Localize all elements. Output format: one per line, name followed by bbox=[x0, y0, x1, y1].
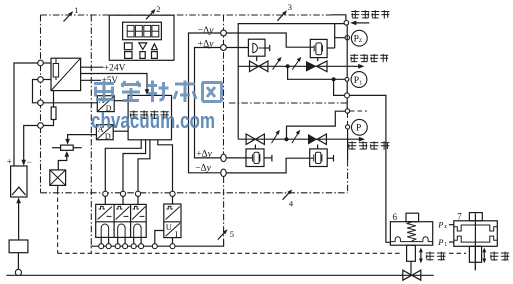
svg-text:+24V: +24V bbox=[104, 63, 126, 73]
nozzle LR capsule bbox=[316, 152, 321, 163]
nozzle UR right tick bbox=[322, 45, 324, 51]
resistor R2 vertical bbox=[51, 107, 56, 120]
middle supply line to processor with down arrow bbox=[81, 74, 147, 91]
pipe main line bottom bbox=[6, 274, 433, 276]
terminal +dy upper bbox=[221, 45, 227, 51]
nozzle UL inner line bbox=[258, 47, 265, 49]
svg-text:−Δy: −Δy bbox=[198, 26, 214, 36]
terminal circle H on bottom boundary bbox=[170, 191, 175, 196]
pressure gauge Pz bbox=[351, 30, 367, 46]
converter cell 2 pulse symbol bbox=[116, 206, 122, 209]
digit 3 bbox=[144, 25, 151, 37]
nozzle UL flapper bar bbox=[252, 43, 254, 53]
SECTION: processor bbox=[50, 95, 175, 196]
actuator 7 stroke arrow bbox=[483, 251, 485, 260]
nozzle unit LL box bbox=[246, 149, 264, 167]
processor output wire 1 bbox=[105, 140, 141, 192]
converter X box bbox=[50, 170, 66, 186]
converter cell 3 coil bbox=[134, 224, 141, 237]
actuator 7 piston lower profile bbox=[454, 236, 498, 242]
bus terminal 1 bbox=[99, 244, 104, 249]
wire node1 stub into power supply bbox=[43, 62, 51, 64]
boundary divider dash-dot x=91.3 between unit 1 and 2 bbox=[90, 15, 92, 253]
nozzle LR left tick bbox=[313, 154, 315, 161]
actuator 7 rod through stem bbox=[474, 246, 476, 270]
boundary dash-dot y=103 between unit 3 and unit 4 bbox=[229, 102, 347, 104]
main line lower with output arrow bbox=[238, 138, 359, 140]
nozzle UR left tick bbox=[313, 45, 315, 51]
SECTION: converters bbox=[91, 196, 224, 248]
amplifier chevron bbox=[12, 187, 26, 195]
watermark char zhen bbox=[94, 81, 114, 103]
digit 4 bbox=[152, 25, 159, 37]
svg-text:6: 6 bbox=[393, 212, 398, 222]
wire terminal F to converter block bbox=[122, 196, 124, 204]
supply wire to positioner 6 bbox=[350, 95, 391, 242]
positioner 6 diaphragm notch left bbox=[395, 237, 400, 242]
bus terminal 6 bbox=[139, 244, 144, 249]
svg-text:4: 4 bbox=[289, 199, 294, 209]
nozzle UR capsule bbox=[316, 43, 322, 55]
wire +dy lower into LL nozzle unit bbox=[226, 157, 252, 159]
feedback sensor box bbox=[9, 240, 28, 253]
arrowhead wiper bbox=[65, 151, 70, 157]
converter block divider 2 bbox=[130, 204, 132, 237]
nozzle LR outer tick bbox=[333, 155, 335, 162]
arrowhead onto potentiometer bbox=[65, 139, 70, 145]
pressure gauge P1 bbox=[351, 72, 367, 88]
boundary dashed bottom line of region 5 bbox=[58, 252, 403, 254]
svg-text:−Δy: −Δy bbox=[195, 164, 211, 174]
svg-text:5: 5 bbox=[230, 229, 234, 239]
arrowhead into processor bbox=[145, 89, 150, 95]
adjust arrow label 2 bbox=[146, 10, 154, 19]
converter cell 2 diagonal bbox=[116, 207, 130, 220]
converter legs cell 2 bbox=[118, 237, 125, 243]
bus terminal 7 bbox=[152, 244, 157, 249]
adjust arrow b bbox=[292, 59, 300, 70]
SECTION: pneumatic lower bbox=[226, 95, 390, 242]
label shu-chu-ya-li output pressure upper bbox=[350, 54, 388, 62]
terminal circle G on bottom boundary bbox=[135, 191, 140, 196]
connector UL box to valve bbox=[256, 56, 258, 61]
arrowhead supply pointing left bbox=[350, 21, 356, 26]
connector valve V3 to LL box bbox=[254, 145, 256, 149]
U/I output leg bbox=[172, 238, 174, 244]
svg-text:1: 1 bbox=[444, 242, 447, 248]
arrowhead output right bbox=[358, 64, 364, 69]
terminal circle F on bottom boundary bbox=[120, 191, 125, 196]
terminal A bbox=[345, 93, 350, 98]
converter legs cell 3 bbox=[134, 237, 141, 243]
adjust arrow label 3 bbox=[277, 12, 285, 21]
nozzle LL outer tick bbox=[271, 155, 273, 162]
converter block divider 1 bbox=[113, 204, 115, 237]
junction routing down to P1 bbox=[288, 66, 345, 79]
converter block triple box bbox=[96, 204, 147, 237]
converter X output stub down bbox=[57, 185, 59, 190]
power supply U1 box bbox=[51, 58, 81, 90]
watermark char wang bbox=[202, 83, 222, 102]
wire terminal H to U/I converter bbox=[172, 196, 174, 204]
feedback wire with up arrow into amplifier bbox=[18, 203, 20, 240]
actuator 7 stem bbox=[469, 246, 481, 262]
svg-text:P: P bbox=[437, 220, 443, 230]
button triangle down bbox=[139, 43, 147, 50]
U/I upper diagonal bbox=[166, 207, 180, 220]
arrowhead minus input down bbox=[21, 160, 26, 166]
power supply internal resistor lead top bbox=[55, 58, 57, 63]
terminal B bbox=[345, 78, 349, 82]
display window bbox=[123, 22, 162, 40]
actuator 7 body bbox=[454, 221, 498, 247]
boundary divider dash-dot x=223.5 between electronics and pneumatics bbox=[223, 15, 225, 154]
actuator 7 cap bbox=[469, 213, 482, 221]
nozzle LL right stub bbox=[264, 157, 271, 159]
supply terminal circle bbox=[344, 21, 349, 26]
converter cell 1 dash bbox=[107, 215, 112, 217]
converter cell 1 diagonal bbox=[98, 207, 112, 220]
wire -dy lower into LR nozzle unit bbox=[226, 158, 314, 173]
adjust arrow label 1 bbox=[64, 13, 72, 22]
terminal at Pz tap bbox=[345, 36, 349, 40]
converter cell 1 coil bbox=[101, 224, 108, 237]
feedback tap lead bbox=[17, 253, 19, 270]
A/D converter 1 box bbox=[97, 96, 114, 112]
wire +dy lower to terminal bbox=[199, 157, 221, 159]
watermark char kong bbox=[121, 81, 141, 102]
valve V3 bowtie open bbox=[246, 134, 255, 145]
supply stub below inlet terminal bbox=[346, 25, 348, 113]
svg-text:+Δy: +Δy bbox=[198, 39, 214, 49]
microprocessor U2 box bbox=[128, 95, 171, 139]
converter legs cell 1 bbox=[101, 237, 108, 243]
terminal circle E on bottom boundary bbox=[103, 191, 108, 196]
wire node4 left down to amplifier minus input bbox=[24, 126, 38, 161]
SECTION: boundaries bbox=[41, 15, 467, 253]
nozzle LL left tick bbox=[251, 154, 253, 161]
svg-text:chvacuum.com: chvacuum.com bbox=[91, 108, 215, 133]
junction dot at P1 branch bbox=[332, 77, 336, 81]
U/I converter box bbox=[164, 204, 181, 238]
bus terminal 5 bbox=[131, 244, 136, 249]
potentiometer left lead bbox=[52, 147, 61, 149]
D/A wire to potentiometer with down arrow bbox=[68, 135, 97, 140]
nozzle unit UL box bbox=[248, 39, 265, 56]
watermark char shu bbox=[174, 81, 196, 103]
node C terminal circle on boundary bbox=[38, 100, 44, 106]
nozzle LL right tick bbox=[259, 154, 261, 161]
potentiometer right lead bbox=[73, 147, 82, 149]
positioner 6 stem bbox=[407, 245, 416, 261]
valve V2 bowtie left filled bbox=[306, 61, 317, 72]
boundary left dash-dot line x=40.5 bbox=[40, 15, 42, 193]
power supply internal resistor bbox=[53, 64, 58, 78]
+24V output line bbox=[81, 66, 104, 68]
actuator 7 rod bbox=[474, 214, 476, 271]
potentiometer RP body bbox=[61, 145, 74, 150]
svg-text:z: z bbox=[444, 223, 447, 230]
digit 1 bbox=[127, 25, 134, 37]
positioner 6 diaphragm notch right bbox=[423, 237, 428, 242]
branch to Pz gauge bbox=[335, 24, 346, 48]
boundary bottom dash-dot line y=192.8 bbox=[41, 192, 348, 194]
U/I lower diagonal bbox=[166, 223, 180, 236]
svg-text:I: I bbox=[175, 229, 178, 239]
A/D converter 1 output wire bbox=[114, 100, 128, 102]
button square bbox=[124, 43, 132, 50]
branch down to terminal A bbox=[334, 79, 345, 95]
processor output wire 2 bbox=[123, 140, 146, 192]
digit 2 bbox=[135, 25, 142, 37]
A/D converter 1 diagonal bbox=[98, 96, 114, 111]
arrowhead output lower right bbox=[359, 137, 365, 142]
SECTION: dy wiring bbox=[189, 30, 227, 176]
svg-text:−: − bbox=[27, 157, 32, 167]
supply header top edge bbox=[238, 24, 344, 140]
potentiometer wiper arrow up bbox=[58, 156, 67, 170]
label gong-qi-ya-li supply pressure bbox=[351, 10, 389, 18]
positioner 6 body bbox=[390, 222, 432, 246]
button triangle up bbox=[152, 44, 158, 50]
svg-text:D: D bbox=[105, 132, 111, 141]
wire node1 left branch to amplifier plus input bbox=[14, 63, 38, 166]
U/I upper pulse symbol bbox=[166, 206, 172, 209]
valve V1 bowtie open bbox=[250, 61, 259, 72]
bus wire bottom with terminals bbox=[91, 240, 224, 246]
wire terminal G to converter block bbox=[137, 196, 139, 204]
junction dot lower bbox=[285, 137, 289, 141]
wire node2 to node3 bypass loop bbox=[33, 80, 38, 103]
dashed stub right of terminal C bbox=[350, 110, 367, 112]
svg-text:7: 7 bbox=[457, 211, 462, 221]
converter cell 3 pulse symbol bbox=[133, 206, 139, 209]
terminal C bbox=[345, 109, 349, 113]
bus terminal 8 bbox=[170, 244, 175, 249]
boundary dashed bottom line right stub bbox=[449, 252, 466, 254]
adjust arrow label 4 bbox=[283, 191, 291, 200]
nozzle LL capsule bbox=[254, 152, 259, 163]
positioner 6 cap bbox=[406, 213, 419, 222]
adjust arrow label 5 bbox=[218, 231, 226, 240]
svg-text:+: + bbox=[7, 157, 12, 167]
nozzle unit UR box bbox=[310, 39, 327, 57]
amplifier A1 box bbox=[11, 166, 27, 197]
adjust arrow c bbox=[272, 132, 279, 144]
gauge column vertical segment 2 bbox=[347, 113, 349, 124]
nozzle LR right stub bbox=[327, 157, 333, 159]
U/I converter divider bbox=[164, 221, 181, 223]
processor output wire 3 bbox=[138, 140, 150, 192]
connector valve V4 to LR box bbox=[317, 145, 319, 149]
main line upper with output arrow bbox=[238, 65, 358, 67]
U/I input wire from ground bus bbox=[155, 231, 164, 244]
junction routing up to terminal C bbox=[287, 111, 346, 139]
wire node4 right to resistor R2 bbox=[43, 120, 53, 126]
pressure gauge P bbox=[352, 119, 368, 135]
wire node3 to A/D converter 1 bbox=[43, 102, 97, 104]
key 3 bbox=[152, 52, 158, 59]
terminal -dy upper bbox=[221, 30, 227, 36]
terminal -dy lower bbox=[221, 169, 226, 176]
wire +dy upper run bbox=[195, 48, 221, 158]
SECTION: actuators bbox=[390, 213, 497, 281]
wire -dy into right nozzle unit bbox=[226, 33, 314, 47]
pipe tap circle bbox=[15, 269, 21, 275]
label wei-chu-li-ji microprocessor bbox=[130, 111, 169, 120]
SECTION: left column bbox=[6, 58, 433, 275]
+5V output line bbox=[81, 79, 101, 81]
svg-text:2: 2 bbox=[156, 4, 160, 14]
boundary solid link down to supply terminal bbox=[331, 15, 346, 20]
label xing-cheng stroke at actuator 7 bbox=[490, 252, 509, 261]
SECTION: gauges bbox=[345, 30, 368, 135]
svg-text:U: U bbox=[166, 222, 172, 232]
power supply diagonal bbox=[52, 59, 80, 90]
wire -dy upper run bbox=[189, 33, 221, 173]
nozzle UL flapper arc bbox=[253, 43, 258, 52]
boundary dash-dot right edge of unit 4 x=347.6 bbox=[347, 160, 349, 193]
svg-text:1: 1 bbox=[74, 5, 78, 15]
wire terminal E to converter block bbox=[104, 196, 106, 204]
bus terminal 4 bbox=[123, 244, 128, 249]
svg-text:+Δy: +Δy bbox=[196, 149, 212, 159]
nozzle LR right tick bbox=[321, 154, 323, 161]
A/D converter 2 box bbox=[96, 125, 113, 140]
positioner 6 diaphragm line bbox=[390, 241, 432, 243]
boundary top dash-dot line (encloses units 1,2,3) bbox=[41, 14, 332, 16]
label shu-chu-ya-li output pressure lower bbox=[348, 141, 390, 149]
valve V4 bowtie left filled bbox=[308, 134, 317, 145]
converter X diagonals bbox=[50, 170, 66, 186]
nozzle UL tick bbox=[269, 45, 271, 51]
gauge column vertical segment 3 bbox=[347, 129, 349, 160]
converter block horizontal divider bbox=[96, 221, 147, 223]
actuator 7 P1 port lead bbox=[449, 241, 454, 243]
junction dot upper bbox=[286, 64, 290, 68]
power supply internal resistor lead bottom bbox=[55, 77, 57, 80]
supply inlet line bbox=[356, 22, 370, 24]
svg-text:3: 3 bbox=[288, 2, 292, 12]
node D terminal circle on boundary bbox=[38, 123, 44, 129]
node B terminal circle on boundary bbox=[38, 77, 44, 83]
wire +dy into left nozzle unit bbox=[226, 47, 248, 49]
positioner 6 spring bbox=[407, 222, 416, 241]
svg-text:P: P bbox=[437, 237, 443, 247]
watermark char ji bbox=[148, 81, 169, 103]
nozzle unit LR box bbox=[310, 149, 328, 167]
processor output wire 4 bbox=[158, 140, 173, 192]
boundary dash-dot wire below terminal with adjust arrow 5 bbox=[223, 177, 225, 241]
nozzle UL right stub bbox=[265, 47, 269, 49]
A/D converter 2 output wire bbox=[113, 130, 128, 132]
boundary dashed left edge of region 5 x=57.6 bbox=[57, 190, 59, 253]
svg-text:P: P bbox=[356, 124, 361, 134]
converter cell 1 pulse symbol bbox=[99, 206, 105, 209]
resistor R2 top lead bbox=[53, 91, 55, 107]
svg-text:Pz: Pz bbox=[354, 35, 362, 45]
key 1 bbox=[125, 52, 132, 59]
terminal +dy lower bbox=[221, 154, 226, 161]
wire node2 stub into power supply bbox=[43, 79, 51, 81]
connector valve V2 to UR box bbox=[317, 58, 319, 62]
terminal D bbox=[346, 125, 350, 129]
bus terminal 2 bbox=[106, 244, 111, 249]
nozzle UR right stub bbox=[327, 47, 335, 49]
SECTION: pneumatic upper bbox=[226, 15, 369, 139]
converter cell 2 dash bbox=[124, 215, 129, 217]
control valve stem bbox=[410, 261, 412, 275]
bus terminal 3 bbox=[115, 244, 120, 249]
label xing-cheng stroke at positioner 6 bbox=[426, 252, 446, 261]
converter cell 2 coil bbox=[118, 224, 125, 237]
actuator 7 Pz port lead bbox=[449, 224, 454, 226]
SECTION: display unit 2 bbox=[109, 15, 174, 60]
converter cell 3 dash bbox=[140, 215, 145, 217]
adjust arrow a bbox=[273, 59, 281, 70]
adjust arrow d bbox=[292, 132, 299, 144]
display unit 2 outer box bbox=[109, 15, 174, 60]
wire -dy lower to terminal bbox=[194, 172, 221, 174]
converter cell 3 diagonal bbox=[132, 207, 145, 220]
control valve bowtie bbox=[403, 270, 412, 280]
arrowhead feedback up bbox=[16, 197, 21, 203]
positioner 6 stroke arrow bbox=[420, 251, 422, 260]
A/D converter 2 diagonal bbox=[97, 125, 113, 139]
SECTION: watermark bbox=[91, 81, 222, 134]
key 2 bbox=[140, 52, 145, 59]
actuator 7 piston upper profile bbox=[454, 225, 498, 231]
node A terminal circle on boundary bbox=[38, 60, 44, 66]
